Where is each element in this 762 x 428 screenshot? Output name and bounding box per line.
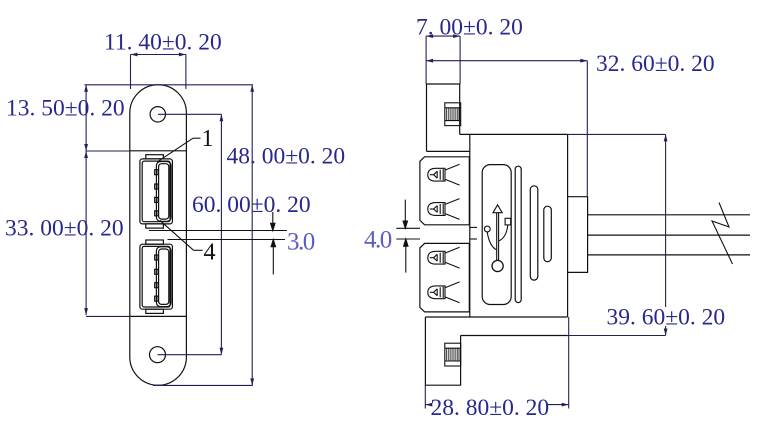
dim 48.00 vertical line	[220, 114, 222, 354]
leader line to pin 4	[160, 220, 203, 250]
svg-text:60. 00±0. 20: 60. 00±0. 20	[192, 192, 311, 218]
USB shell 2 side view	[420, 243, 469, 312]
USB receptacle 2 front	[140, 240, 173, 313]
vent slot 2	[530, 186, 538, 280]
dim 32.60 line	[426, 60, 587, 62]
svg-text:32. 60±0. 20: 32. 60±0. 20	[596, 51, 715, 77]
dim 7.00 line	[426, 35, 460, 37]
wire 2	[588, 234, 750, 236]
dim 28.80 extension lines	[424, 385, 426, 408]
dimension arrowheads left view	[84, 53, 254, 386]
cutout edge top	[130, 150, 187, 152]
flange top block	[427, 84, 460, 151]
cable boot block	[568, 197, 588, 273]
dim 39.60 vertical line	[665, 134, 667, 307]
shared top extension line	[85, 84, 253, 86]
dimension arrowheads right view	[425, 34, 667, 406]
cutout edge bottom	[130, 315, 187, 317]
svg-text:48. 00±0. 20: 48. 00±0. 20	[227, 144, 346, 170]
svg-text:13. 50±0. 20: 13. 50±0. 20	[6, 96, 125, 122]
3.0 down arrow	[272, 212, 274, 228]
vent slot 1	[515, 166, 521, 302]
housing body right edge	[567, 134, 569, 317]
svg-text:28. 80±0. 20: 28. 80±0. 20	[431, 395, 550, 421]
screw bottom	[445, 343, 461, 366]
contact spring 4	[428, 282, 460, 303]
dim 28.80 line	[425, 404, 432, 406]
dim 32.60 extension	[586, 61, 588, 197]
gap tick lines on body left edge	[470, 227, 477, 239]
label panel rounded rect	[482, 165, 511, 305]
mounting plate outline (stadium)	[130, 85, 187, 386]
dim 11.40 extension lines	[130, 55, 132, 90]
svg-text:1: 1	[202, 126, 214, 152]
bottom mounting hole	[150, 347, 166, 363]
contact spring 2	[428, 199, 460, 220]
bottom hole center line	[158, 354, 222, 356]
svg-text:3.0: 3.0	[287, 229, 315, 256]
vent slot 3	[544, 206, 552, 262]
svg-text:39. 60±0. 20: 39. 60±0. 20	[607, 305, 726, 331]
housing body left edge	[469, 134, 471, 317]
dim 13.50 / 33.00 vertical line	[85, 85, 87, 315]
top hole center line	[158, 113, 221, 115]
extension line at USB2 bottom	[86, 315, 130, 317]
dim 39.60 extension bottom	[568, 335, 666, 337]
svg-text:4.0: 4.0	[364, 227, 392, 254]
leader line to pin 1	[157, 138, 200, 162]
flange bottom block	[425, 317, 460, 385]
contact spring 1	[428, 164, 460, 185]
USB receptacle 1 front	[140, 155, 173, 228]
dim 60.00 vertical line	[251, 85, 253, 386]
svg-text:33. 00±0. 20: 33. 00±0. 20	[5, 216, 124, 242]
USB trident logo	[484, 205, 510, 272]
flange step edge	[461, 335, 568, 337]
top mounting hole	[150, 107, 165, 122]
svg-text:11. 40±0. 20: 11. 40±0. 20	[104, 30, 222, 56]
svg-text:4: 4	[204, 240, 216, 266]
dim 39.60 extension top	[568, 133, 666, 135]
housing body bottom edge	[425, 316, 567, 318]
housing body top edge	[460, 133, 568, 135]
wire 3	[588, 254, 750, 256]
4.0 gap lines and arrows	[396, 200, 420, 273]
3.0 gap lines	[149, 212, 287, 275]
dim 11.40 line	[131, 54, 186, 56]
extension line at USB1 top	[86, 150, 130, 152]
cable break symbol	[712, 203, 733, 265]
3.0 up arrow	[272, 242, 274, 275]
bottom extension line	[153, 384, 253, 386]
svg-text:7. 00±0. 20: 7. 00±0. 20	[416, 15, 523, 41]
screw top	[445, 103, 461, 126]
USB shell 1 side view	[420, 157, 469, 225]
dim 7.00 extension lines	[425, 36, 427, 84]
wire 1	[588, 214, 750, 216]
contact spring 3	[428, 247, 460, 268]
